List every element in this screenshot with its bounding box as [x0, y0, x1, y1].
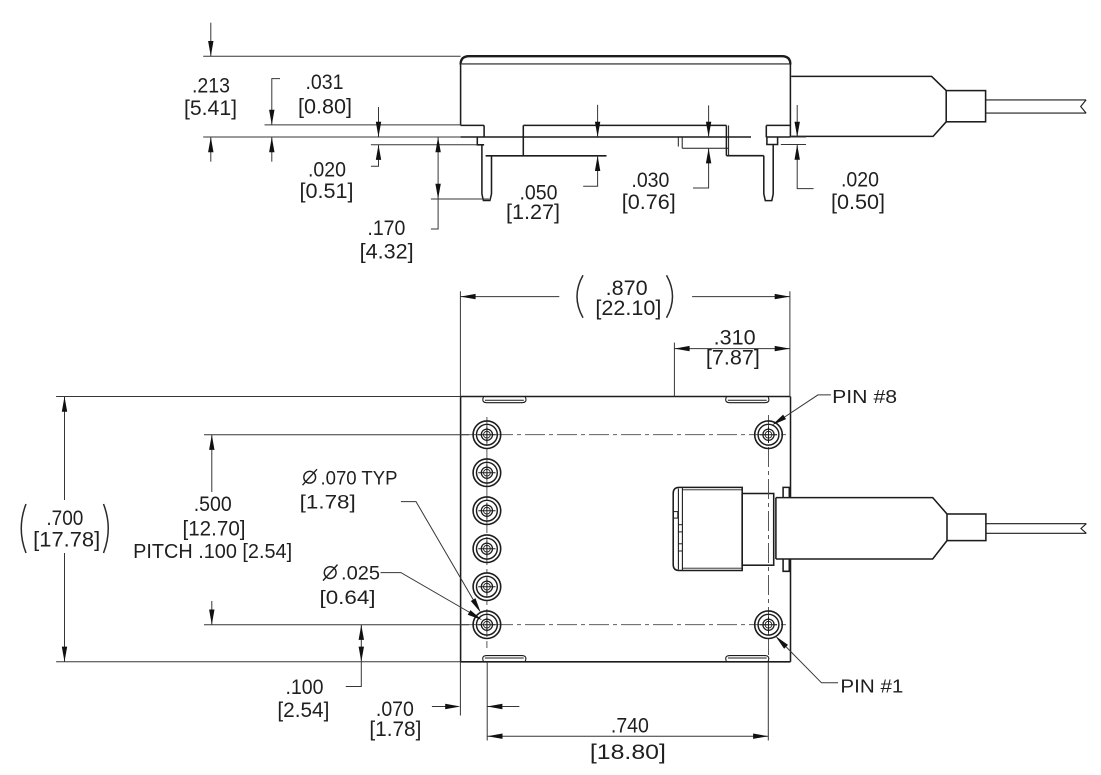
pin L6: [473, 611, 501, 639]
center boss left edge: [522, 125, 524, 155]
ext .700 top / bottom: [56, 396, 461, 398]
.213 arrows: [208, 41, 213, 56]
ext .870/.310 right: [789, 291, 791, 396]
top slot right: [726, 397, 769, 403]
svg-text:.100: .100: [286, 675, 324, 699]
edge clips: [783, 487, 789, 497]
pin L5: [473, 573, 501, 601]
column centerline right pins: [768, 415, 770, 655]
leader dia .025: [381, 573, 480, 618]
.310 arrows: [674, 346, 689, 351]
left pin: [481, 145, 483, 194]
svg-text:[12.70]: [12.70]: [183, 516, 246, 540]
.170 arrows: [435, 137, 440, 152]
dim line .500: [211, 435, 213, 492]
dim .020 right: [796, 105, 798, 137]
svg-text:PITCH .100 [2.54]: PITCH .100 [2.54]: [133, 541, 292, 563]
strip ticks on block A: [678, 524, 682, 526]
package body top edge (thick): [461, 56, 791, 64]
ext seating line: [203, 136, 460, 138]
left pin shoulder: [477, 137, 484, 145]
fiber cable (plan): [986, 523, 1086, 525]
.700 arrows: [62, 397, 67, 412]
dim .170: [437, 137, 439, 199]
parens .700: [21, 504, 26, 553]
column centerline left pins: [486, 417, 488, 648]
dim .070 tails: [432, 706, 455, 708]
right boss bottom: [726, 155, 763, 157]
.050 arrows: [595, 122, 600, 137]
parens .870: [577, 275, 583, 318]
pin L4: [473, 535, 501, 563]
svg-text:.170: .170: [367, 216, 405, 240]
svg-text:[0.51]: [0.51]: [300, 179, 354, 203]
ext shoulder bottom left: [371, 144, 477, 146]
side view dimension thin lines: [203, 23, 813, 229]
.870 arrows: [460, 294, 475, 299]
dim line .700: [64, 397, 66, 501]
package left edge: [460, 65, 462, 126]
connector block A: [673, 487, 1086, 571]
right pin shoulder: [767, 137, 778, 144]
leader arrowheads: [770, 415, 786, 428]
ext body bottom: [265, 124, 461, 126]
ferrule (plan): [947, 514, 986, 541]
.030 arrows: [706, 122, 711, 137]
svg-text:[7.87]: [7.87]: [706, 346, 760, 370]
big parentheses: [21, 275, 672, 553]
ext .070 left (package edge extended): [459, 662, 461, 716]
dim line .310: [674, 348, 790, 350]
dim .030: [708, 105, 710, 137]
svg-text:[0.50]: [0.50]: [831, 190, 885, 214]
svg-text:PIN #8: PIN #8: [832, 386, 897, 407]
.020 left arrows: [376, 122, 381, 137]
package outline plan: [461, 396, 791, 398]
center boss bottom: [486, 155, 607, 157]
side view arrowheads: [208, 41, 800, 199]
svg-text:.213: .213: [192, 74, 230, 98]
centerlines: [461, 415, 786, 655]
svg-text:.070 TYP: .070 TYP: [321, 467, 398, 489]
svg-text:[1.78]: [1.78]: [369, 717, 421, 741]
fiber boot (side): [791, 76, 946, 90]
side view dimension texts: [184, 70, 885, 264]
svg-text:[18.80]: [18.80]: [590, 740, 666, 764]
latch box on block A: [673, 512, 678, 518]
pin L2: [473, 459, 501, 487]
ext pin tip: [431, 198, 489, 200]
package right edge: [789, 65, 791, 138]
svg-text:PIN #1: PIN #1: [840, 675, 903, 696]
.740 arrows: [487, 734, 502, 739]
leader pin1: [778, 639, 838, 683]
seating plane line through package: [461, 136, 751, 138]
svg-text:.031: .031: [306, 70, 344, 94]
pin 1 (bottom right): [755, 611, 783, 639]
svg-text:.020: .020: [308, 157, 346, 181]
package top chamfer line: [462, 63, 789, 65]
right pin: [763, 156, 765, 194]
dim line .870: [460, 296, 559, 298]
row centerline pin8: [461, 434, 786, 436]
.500 arrows: [209, 435, 214, 450]
svg-text:.030: .030: [631, 168, 669, 192]
dia .070 TYP label: [300, 467, 398, 513]
fiber boot (plan): [776, 498, 947, 514]
bottom slot left: [483, 656, 526, 662]
svg-text:.025: .025: [341, 563, 380, 585]
.031 arrows: [269, 110, 274, 125]
plan view dimension thin lines: [56, 291, 838, 740]
svg-text:[0.64]: [0.64]: [320, 587, 376, 609]
plan view texts: [33, 276, 760, 764]
svg-text:[0.80]: [0.80]: [298, 95, 352, 119]
ext .310 left: [673, 343, 675, 397]
svg-text:[22.10]: [22.10]: [595, 296, 661, 320]
leader pin8: [776, 395, 831, 423]
svg-text:.740: .740: [611, 713, 649, 737]
ferrule (side): [946, 91, 985, 122]
connector block B: [742, 494, 774, 566]
svg-text:.700: .700: [46, 506, 83, 530]
dim .213: [210, 23, 212, 57]
dia .025 label: [320, 563, 381, 609]
right boss edges: [725, 125, 727, 155]
ext pin column right extended: [767, 662, 769, 741]
dim .020 left: [378, 107, 380, 137]
svg-text:.500: .500: [194, 492, 232, 516]
pins: [473, 421, 782, 639]
.070 arrows: [445, 704, 460, 709]
pin L1: [473, 421, 501, 449]
row centerline pin1: [461, 624, 786, 626]
package body bottom segments: [461, 124, 485, 126]
top slot left: [483, 397, 526, 403]
right foot edge: [765, 125, 767, 137]
dim .050: [597, 105, 599, 137]
ext top line: [203, 55, 460, 57]
dim .100: [360, 625, 362, 662]
fiber cable (side): [986, 99, 1087, 101]
svg-text:[1.78]: [1.78]: [300, 492, 356, 514]
left foot edge: [483, 125, 485, 137]
svg-text:.020: .020: [841, 167, 879, 191]
svg-text:[17.78]: [17.78]: [33, 528, 100, 552]
svg-text:[5.41]: [5.41]: [184, 96, 237, 120]
bottom slot right: [726, 656, 769, 662]
svg-text:[1.27]: [1.27]: [506, 200, 560, 224]
plan view arrowheads: [62, 294, 790, 739]
svg-text:[4.32]: [4.32]: [360, 240, 414, 264]
svg-text:[2.54]: [2.54]: [277, 698, 329, 722]
ext .870 left: [459, 291, 461, 396]
ext .500 top/bottom: [204, 434, 469, 436]
recess tray bottom: [682, 147, 728, 149]
ext pin column left extended: [486, 662, 488, 741]
recess tray ticks: [677, 137, 679, 147]
pin 8 (top right): [755, 421, 783, 449]
.020 right arrows: [795, 122, 800, 137]
dim line .740: [487, 735, 768, 737]
.100 arrows: [359, 625, 364, 640]
pin L3: [473, 497, 501, 525]
ext shoulder bottom right: [781, 144, 806, 146]
svg-text:[0.76]: [0.76]: [622, 190, 676, 214]
leader dia .070: [401, 502, 479, 609]
dim .031: [272, 79, 280, 125]
